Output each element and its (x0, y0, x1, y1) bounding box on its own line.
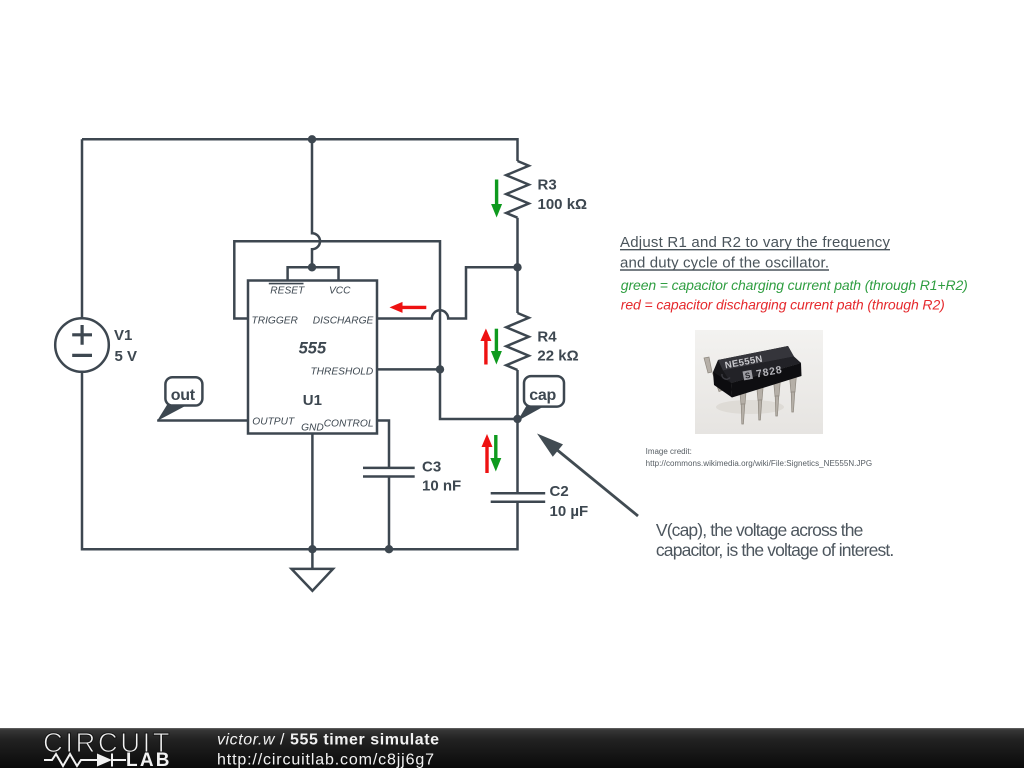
svg-text:5 V: 5 V (115, 348, 138, 365)
svg-text:DISCHARGE: DISCHARGE (313, 315, 374, 326)
svg-text:555: 555 (299, 339, 327, 357)
svg-text:http://circuitlab.com/c8jj6g7: http://circuitlab.com/c8jj6g7 (217, 752, 434, 768)
svg-text:cap: cap (529, 387, 556, 404)
svg-text:V(cap), the voltage across the: V(cap), the voltage across the (656, 520, 864, 540)
svg-text:GND: GND (301, 423, 324, 434)
svg-text:R4: R4 (537, 329, 557, 346)
svg-text:U1: U1 (303, 392, 322, 409)
svg-text:C2: C2 (550, 483, 569, 500)
svg-text:100 kΩ: 100 kΩ (538, 196, 588, 213)
svg-text:RESET: RESET (270, 285, 305, 296)
svg-text:and duty cycle of the oscillat: and duty cycle of the oscillator. (620, 254, 829, 271)
svg-text:http://commons.wikimedia.org/w: http://commons.wikimedia.org/wiki/File:S… (646, 459, 873, 468)
svg-text:CONTROL: CONTROL (324, 419, 374, 430)
svg-text:LAB: LAB (126, 750, 172, 768)
svg-text:V1: V1 (114, 327, 132, 344)
svg-text:10 nF: 10 nF (422, 478, 461, 495)
svg-text:green = capacitor charging cur: green = capacitor charging current path … (621, 277, 968, 293)
svg-text:red = capacitor discharging cu: red = capacitor discharging current path… (621, 296, 945, 312)
svg-text:OUTPUT: OUTPUT (252, 417, 295, 428)
svg-text:THRESHOLD: THRESHOLD (310, 367, 373, 378)
svg-text:C3: C3 (422, 459, 441, 476)
svg-text:Adjust R1 and R2 to vary the f: Adjust R1 and R2 to vary the frequency (620, 234, 891, 251)
svg-text:VCC: VCC (329, 285, 351, 296)
svg-text:TRIGGER: TRIGGER (252, 315, 299, 326)
svg-text:capacitor, is the voltage of i: capacitor, is the voltage of interest. (656, 540, 894, 560)
svg-text:victor.w / 555 timer simulate: victor.w / 555 timer simulate (217, 732, 440, 749)
svg-text:R3: R3 (538, 177, 557, 194)
svg-text:22 kΩ: 22 kΩ (537, 348, 578, 365)
svg-text:Image credit:: Image credit: (646, 447, 692, 456)
svg-text:out: out (171, 387, 196, 404)
svg-text:10 µF: 10 µF (550, 503, 589, 520)
